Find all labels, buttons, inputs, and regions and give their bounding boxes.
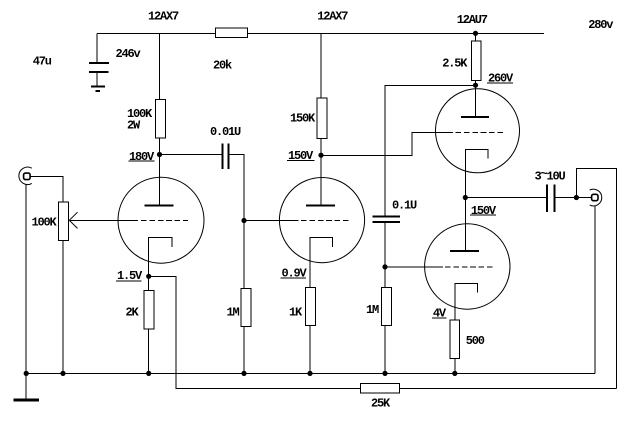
tube V1 cathode: [149, 238, 172, 277]
junction bus left end: [24, 371, 29, 376]
resistor R1 100K 2W (V1 plate load): [156, 99, 166, 138]
node 260V (V3 plate): [473, 83, 478, 88]
resistor R4 1M (V2 grid leak): [241, 288, 251, 326]
wire C4 to output jack J2: [555, 197, 592, 199]
wire B+ supply rail: [97, 33, 544, 35]
resistor R9 25K (feedback): [361, 384, 400, 394]
svg-text:12AX7: 12AX7: [148, 10, 179, 24]
wire C2 to V2 grid node: [229, 155, 244, 221]
node V4 grid junction: [382, 264, 387, 269]
junction VR1 at ground bus: [60, 371, 65, 376]
wire feedback line to V1 cathode: [149, 276, 617, 388]
junction R4 at ground bus: [241, 371, 246, 376]
svg-text:2K: 2K: [126, 306, 140, 320]
node output: [574, 195, 579, 200]
tube V4 grid wire: [385, 266, 443, 268]
svg-text:100K: 100K: [32, 215, 58, 229]
wire rail to R7 and V3 plate: [475, 34, 477, 86]
tube V3 grid dashes: [456, 132, 506, 134]
wire output node around to feedback resistor: [576, 169, 616, 389]
output jack J2: [590, 189, 602, 206]
junction R6 at ground bus: [382, 371, 387, 376]
node 180V (V1 plate): [157, 152, 162, 157]
svg-text:1M: 1M: [227, 306, 240, 320]
wire 150V node to V3 grid (direct coupling): [321, 133, 453, 156]
svg-text:2W: 2W: [127, 119, 141, 133]
wire ground bus: [26, 373, 595, 375]
wire rail to R1 and V1 plate: [159, 34, 161, 155]
tube V4 envelope (12AU7 lower): [425, 224, 510, 309]
input jack J1: [19, 167, 32, 184]
svg-text:2.5K: 2.5K: [442, 57, 468, 71]
wire VR1 bottom to ground bus: [62, 241, 64, 374]
wire rail to filter cap C1: [96, 34, 98, 63]
node V2 grid junction: [241, 218, 246, 223]
resistor R8 500 (V4 cathode): [450, 320, 460, 359]
tube V4 cathode: [455, 284, 478, 374]
tube V2 grid wire: [244, 220, 299, 222]
node 150V (V3 cathode, output): [463, 195, 468, 200]
svg-text:47u: 47u: [33, 55, 52, 69]
svg-text:150K: 150K: [290, 112, 316, 126]
node 1.5V (V1 cathode): [146, 274, 151, 279]
tube V2 plate: [320, 156, 322, 206]
wire J2 shield to ground bus: [594, 206, 596, 374]
wire J1 to volume pot VR1: [30, 177, 63, 203]
wire V2 cathode to R5 and ground bus: [309, 288, 311, 374]
resistor R5 1K (V2 cathode): [306, 287, 316, 325]
tube V4 plate: [464, 198, 466, 252]
ground (below C1): [91, 86, 105, 88]
svg-text:180V: 180V: [129, 150, 155, 164]
tube V1 plate: [159, 155, 161, 206]
junction rail to R7: [473, 31, 478, 36]
wire 260V node to C3: [385, 86, 476, 217]
wire rail to R3 and V2 plate: [320, 34, 322, 156]
junction R8 at ground bus: [452, 371, 457, 376]
svg-text:25K: 25K: [371, 396, 391, 410]
svg-text:12AX7: 12AX7: [317, 10, 348, 24]
capacitor C3 0.1U (V3 plate to V4 grid): [373, 215, 401, 217]
svg-text:0.1U: 0.1U: [392, 199, 417, 213]
resistor R2 2K (V1 cathode): [144, 291, 154, 330]
svg-text:3~10U: 3~10U: [535, 167, 566, 184]
svg-text:246v: 246v: [116, 47, 141, 61]
ground (chassis, bottom left): [25, 374, 27, 399]
svg-text:12AU7: 12AU7: [457, 13, 488, 27]
svg-text:1M: 1M: [366, 303, 379, 317]
svg-text:1K: 1K: [289, 306, 303, 320]
svg-text:500: 500: [466, 334, 485, 348]
svg-text:20k: 20k: [213, 59, 232, 73]
wire V1 cathode to R2 and ground bus: [148, 276, 150, 373]
resistor R6 1M (V4 grid leak): [382, 287, 392, 325]
capacitor C2 0.01U (V1-V2 coupling): [221, 144, 223, 170]
svg-text:280v: 280v: [588, 18, 613, 32]
tube V2 envelope: [279, 178, 364, 263]
potentiometer wiper arrow: [69, 212, 77, 220]
resistor R3 150K (V2 plate load): [317, 98, 327, 138]
node 150V (V2 plate): [318, 153, 323, 158]
svg-text:260V: 260V: [488, 72, 514, 86]
capacitor C4 3~10U (output coupling): [546, 185, 548, 213]
tube V3 cathode: [465, 150, 488, 198]
wire 180V node to C2: [160, 154, 223, 156]
potentiometer VR1 100K (volume): [59, 202, 69, 241]
tube V1 envelope: [118, 177, 204, 263]
wire J1 shield to ground bus: [25, 184, 27, 373]
tube V3 plate: [475, 86, 477, 118]
svg-text:0.01U: 0.01U: [210, 125, 241, 139]
junction R2 at ground bus: [146, 371, 151, 376]
tube V2 cathode: [310, 238, 333, 288]
wire 150V output node to C4: [465, 197, 547, 199]
wire C3 to V4 grid node and R6: [384, 222, 386, 373]
tube V3 envelope (12AU7 upper): [436, 89, 520, 173]
tube V1 grid wire: [69, 219, 138, 221]
junction R5 at ground bus: [307, 371, 312, 376]
wire V2 grid node to R4 and ground bus: [243, 221, 245, 374]
resistor 20k (rail dropping): [216, 28, 248, 38]
resistor R7 2.5K (V3 plate): [471, 41, 481, 80]
capacitor C1 47u (supply filter): [89, 62, 109, 64]
